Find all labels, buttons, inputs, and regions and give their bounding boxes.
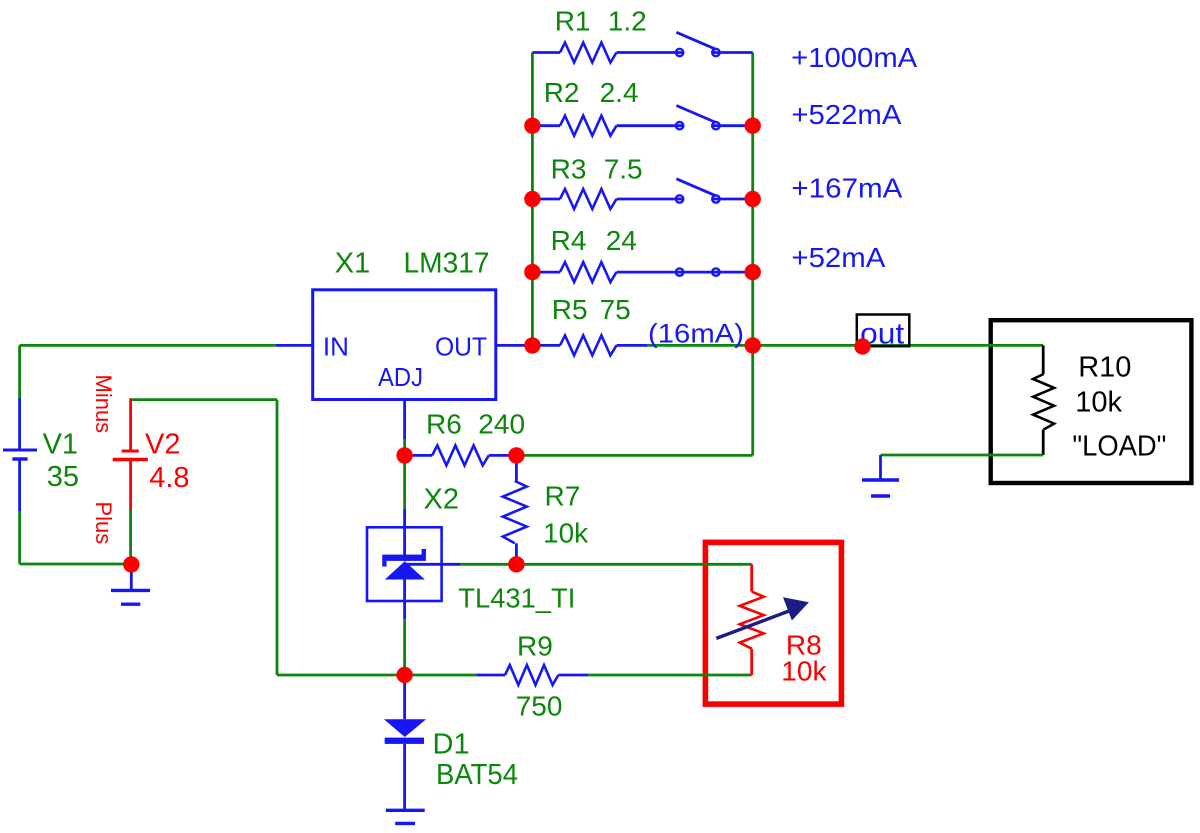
- svg-text:"LOAD": "LOAD": [1072, 430, 1166, 462]
- diode D1 cathode bar: [385, 738, 424, 744]
- resistor R2: [560, 116, 617, 136]
- wire out net: [753, 344, 1043, 347]
- battery V2 long plate: [113, 458, 148, 462]
- svg-text:OUT: OUT: [435, 332, 487, 362]
- junction node left rail R4: [524, 264, 540, 280]
- wire R7 top lead: [515, 455, 518, 481]
- junction node anode rail: [396, 667, 412, 683]
- resistor R10 top lead: [1042, 345, 1045, 374]
- R8 wiper arrow head: [783, 597, 809, 620]
- svg-text:TL431_TI: TL431_TI: [458, 582, 575, 613]
- ground at load: [879, 455, 882, 480]
- battery V1 top lead: [18, 398, 21, 450]
- svg-text:V2: V2: [145, 429, 180, 461]
- wire ADJ lead green: [403, 440, 406, 456]
- wire row R3 right lead: [711, 198, 752, 201]
- TL431 cathode bar: [382, 555, 426, 561]
- junction node right rail R2: [745, 118, 761, 134]
- junction node right rail R4: [745, 264, 761, 280]
- junction node left rail OUT: [524, 337, 540, 353]
- switch S3 contacts: [676, 195, 683, 202]
- shunt reference X2 TL431 box: [367, 527, 442, 601]
- battery V2 bottom lead red: [129, 460, 132, 511]
- wire R5 to right rail: [647, 344, 753, 347]
- svg-text:D1: D1: [433, 728, 470, 760]
- junction node R6/R7: [508, 447, 524, 463]
- svg-text:R5: R5: [552, 294, 588, 325]
- wire row R4 through closed switch: [617, 271, 753, 274]
- svg-text:Plus: Plus: [91, 502, 116, 545]
- svg-text:LM317: LM317: [404, 248, 490, 280]
- svg-text:2.4: 2.4: [600, 77, 639, 108]
- svg-text:X2: X2: [424, 484, 459, 516]
- wire row R1 to switch: [617, 51, 685, 54]
- R8 wiper arrow shaft: [716, 610, 793, 639]
- resistor R3: [560, 189, 617, 209]
- wire R8 top lead: [750, 564, 753, 591]
- switch S3 blade open: [676, 179, 716, 196]
- svg-text:R2: R2: [544, 77, 580, 108]
- wire row R1 right lead: [711, 51, 752, 54]
- resistor R5: [560, 335, 617, 355]
- wire TL431 ref stub: [406, 563, 460, 566]
- wire OUT lead: [496, 344, 533, 347]
- ground below battery junction: [130, 564, 133, 590]
- wire row R4 left lead: [532, 271, 560, 274]
- switch S1 blade open: [676, 32, 716, 49]
- svg-text:R7: R7: [545, 480, 581, 511]
- svg-text:+52mA: +52mA: [791, 242, 885, 273]
- battery V1 bottom lead: [18, 459, 21, 511]
- wire R8 bottom lead: [750, 649, 753, 675]
- svg-text:ADJ: ADJ: [378, 362, 423, 392]
- wire input net horizontal: [20, 344, 276, 347]
- svg-text:Minus: Minus: [91, 375, 116, 434]
- wire V2 bottom green: [129, 510, 132, 564]
- wire V2 branch vertical: [276, 400, 279, 675]
- wire R9 right lead: [558, 674, 588, 677]
- resistor R1: [560, 43, 617, 63]
- junction node right rail OUT: [745, 337, 761, 353]
- wire row R5 right lead: [617, 344, 648, 347]
- svg-text:+167mA: +167mA: [791, 173, 902, 204]
- wire ADJ lead blue: [403, 400, 406, 440]
- TL431 anode triangle: [385, 561, 425, 579]
- resistor R9: [505, 665, 558, 685]
- annotation black box LOAD: [991, 320, 1192, 483]
- junction node out label: [854, 338, 870, 354]
- wire R6 node to right rail: [516, 454, 752, 457]
- wire V2 top horizontal: [131, 398, 277, 401]
- resistor R6: [432, 445, 489, 465]
- wire R9 to R8 bottom: [588, 674, 751, 677]
- resistor R7: [503, 481, 527, 543]
- diode D1 triangle: [384, 719, 426, 737]
- svg-text:IN: IN: [323, 332, 349, 362]
- svg-text:240: 240: [478, 409, 525, 440]
- junction node left rail R3: [524, 191, 540, 207]
- wire R9 left lead: [476, 674, 505, 677]
- svg-text:(16mA): (16mA): [648, 319, 744, 349]
- wire ladder right rail: [751, 53, 754, 456]
- switch S2 contacts: [676, 122, 683, 129]
- wire TL431 cathode vertical: [403, 455, 406, 508]
- battery V2 short plate: [122, 450, 139, 453]
- wire row R3 to switch: [617, 198, 685, 201]
- wire row R2 left lead: [532, 124, 560, 127]
- resistor R10 bottom lead: [1042, 430, 1045, 456]
- wire ladder left rail: [531, 53, 534, 346]
- wire R10 bottom to ground: [881, 454, 1044, 457]
- svg-text:R4: R4: [551, 225, 587, 256]
- svg-text:10k: 10k: [1075, 386, 1122, 418]
- wire row R2 right lead: [711, 124, 752, 127]
- svg-text:35: 35: [47, 461, 79, 493]
- svg-text:R6: R6: [426, 409, 462, 440]
- switch S1 contacts: [676, 49, 683, 56]
- wire V1 bottom green: [18, 511, 21, 564]
- switch S2 blade open: [676, 106, 716, 123]
- junction node left rail R2: [524, 118, 540, 134]
- TL431 cathode bar right tick: [422, 549, 426, 555]
- net label box out: [857, 315, 910, 347]
- wire ref net to R8 top: [460, 563, 752, 566]
- svg-text:R9: R9: [517, 631, 553, 662]
- TL431 cathode bar left tick: [382, 561, 386, 567]
- junction node right rail R3: [745, 191, 761, 207]
- svg-text:10k: 10k: [781, 656, 827, 687]
- potentiometer R8: [740, 592, 764, 649]
- battery V2 top lead: [129, 398, 132, 451]
- resistor R4: [560, 262, 617, 282]
- diode D1 top lead: [403, 675, 406, 719]
- battery V1 short plate: [12, 457, 27, 460]
- svg-text:75: 75: [600, 294, 631, 325]
- junction node battery common: [123, 556, 139, 572]
- wire row R3 left lead: [532, 198, 560, 201]
- junction node ADJ/R6: [396, 447, 412, 463]
- wire bottom rail left: [277, 674, 476, 677]
- svg-text:V1: V1: [43, 429, 78, 461]
- diode D1 bottom lead: [403, 744, 406, 810]
- wire input net left vertical: [18, 345, 21, 399]
- wire row R5 left lead: [532, 344, 560, 347]
- svg-text:R10: R10: [1078, 352, 1131, 384]
- op-amp regulator U/X1 LM317 box: [313, 290, 496, 400]
- switch S4 contacts: [676, 268, 683, 275]
- svg-text:X1: X1: [335, 248, 370, 280]
- wire row R2 to switch: [617, 124, 685, 127]
- svg-text:4.8: 4.8: [149, 462, 189, 494]
- svg-text:+522mA: +522mA: [791, 99, 901, 130]
- wire V1 to junction: [20, 563, 132, 566]
- battery V1 long plate: [3, 449, 37, 452]
- annotation red box around R8: [705, 542, 841, 704]
- wire IN lead: [276, 344, 313, 347]
- wire R7 bottom lead: [515, 543, 518, 564]
- svg-text:R3: R3: [551, 153, 587, 184]
- wire R6 left lead: [405, 454, 433, 457]
- svg-text:+1000mA: +1000mA: [791, 42, 917, 73]
- svg-text:750: 750: [516, 690, 563, 721]
- svg-text:10k: 10k: [543, 517, 589, 548]
- svg-text:R1: R1: [555, 6, 591, 37]
- wire R6 right lead: [489, 454, 517, 457]
- svg-text:1.2: 1.2: [608, 6, 647, 37]
- junction node R7/ref: [508, 556, 524, 572]
- resistor R10: [1033, 374, 1054, 430]
- ground below D1: [386, 809, 425, 812]
- svg-text:BAT54: BAT54: [436, 759, 518, 791]
- wire row R1 left lead: [532, 51, 560, 54]
- wire TL431 anode vertical: [403, 580, 406, 620]
- svg-text:24: 24: [606, 225, 637, 256]
- svg-text:7.5: 7.5: [604, 153, 643, 184]
